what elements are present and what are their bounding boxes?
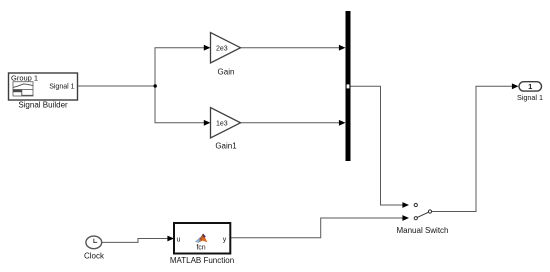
svg-text:Clock: Clock bbox=[84, 252, 105, 261]
svg-text:fcn: fcn bbox=[196, 245, 205, 252]
svg-text:MATLAB Function: MATLAB Function bbox=[170, 256, 234, 265]
svg-text:Signal 1: Signal 1 bbox=[517, 93, 543, 102]
svg-text:Gain1: Gain1 bbox=[215, 142, 237, 151]
svg-text:1e3: 1e3 bbox=[216, 120, 228, 127]
svg-text:u: u bbox=[177, 237, 181, 244]
svg-text:2e3: 2e3 bbox=[216, 45, 228, 52]
svg-text:1: 1 bbox=[528, 82, 532, 91]
svg-text:Signal Builder: Signal Builder bbox=[18, 101, 68, 110]
svg-text:y: y bbox=[223, 237, 227, 244]
svg-text:Group 1: Group 1 bbox=[11, 74, 38, 83]
svg-text:Signal 1: Signal 1 bbox=[49, 83, 74, 90]
svg-text:Manual Switch: Manual Switch bbox=[396, 226, 448, 235]
svg-text:Gain: Gain bbox=[218, 68, 235, 77]
